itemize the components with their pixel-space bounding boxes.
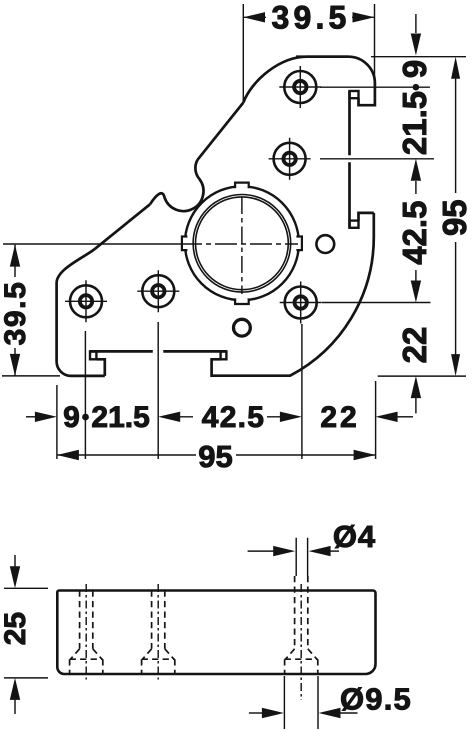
svg-text:39.5: 39.5	[0, 281, 32, 346]
dim 25 extension lines	[4, 588, 48, 678]
small circle bottom	[234, 319, 251, 336]
dim dia9.5 extension lines	[284, 676, 318, 729]
plate left edge	[55, 283, 58, 362]
big ring inner circle 1	[193, 195, 291, 293]
svg-text:42.5: 42.5	[202, 401, 266, 434]
dim 25 arrows outside	[14, 555, 16, 567]
ring vertical centerline	[241, 197, 243, 294]
plate right edge lower and bottom-right corner arc	[227, 213, 374, 376]
svg-text:21.5: 21.5	[91, 401, 149, 434]
dim top 39.5 extension line right	[374, 4, 376, 84]
ring tab south	[235, 298, 250, 306]
plate upper diagonal edge	[198, 103, 244, 160]
dim top 39.5 extension line left	[242, 4, 244, 102]
scallop notch	[150, 160, 203, 211]
svg-text:22: 22	[396, 327, 433, 364]
big ring inner circle 2	[196, 197, 289, 290]
dim dia4 arrows	[248, 550, 274, 552]
plate top-right corner arc	[348, 57, 375, 83]
svg-text:42.5: 42.5	[396, 201, 433, 265]
side view pin 3 centerline	[300, 584, 302, 700]
svg-text:25: 25	[0, 612, 32, 645]
bottom chain extension line HL2	[157, 322, 159, 459]
side view pin 2 (dashed)	[142, 591, 175, 675]
svg-text:95: 95	[198, 439, 232, 474]
big ring outer circle	[185, 186, 299, 300]
screw hole HL1 left	[65, 280, 107, 322]
svg-text:21.5: 21.5	[396, 91, 433, 155]
right slot hook bottom step	[359, 213, 374, 221]
screw hole H1 top	[279, 66, 321, 108]
right slot hook box top	[350, 91, 359, 98]
right slot recessed edge	[348, 91, 351, 228]
plate top-left corner arc	[243, 57, 348, 103]
plate lower diagonal edge	[95, 204, 150, 249]
right slot hook box bottom	[350, 221, 359, 228]
side view box outline	[57, 591, 375, 675]
dim dia9.5 arrows	[249, 712, 262, 714]
right chain extension line at H2	[320, 158, 434, 160]
dim 42.5 top arrow (points up)	[411, 159, 421, 181]
side view pin 2 centerline	[157, 584, 159, 680]
ring horizontal centerline	[3, 243, 180, 245]
svg-text:95: 95	[436, 199, 473, 236]
dim 42.5 bottom arrows	[158, 412, 302, 422]
screw hole HL2 middle	[137, 270, 179, 312]
dim 9 arrow above (points down to top line)	[415, 14, 417, 33]
screw hole H2	[269, 138, 311, 180]
bottom chain extension line plate right	[375, 381, 377, 459]
right chain extension line at H1	[320, 86, 430, 88]
svg-text:Ø4: Ø4	[333, 519, 376, 554]
side view pin 3 (dashed)	[285, 576, 318, 674]
svg-text:9: 9	[63, 401, 80, 434]
dim top 39.5 line and arrows	[243, 16, 374, 18]
side view pin 1 (dashed)	[70, 591, 103, 675]
side view pin 1 centerline	[85, 584, 87, 680]
ring tab east	[296, 236, 303, 251]
ring tab west	[181, 236, 188, 251]
screw hole H3 right-bottom	[280, 282, 322, 324]
small circle right	[316, 235, 334, 253]
svg-text:22: 22	[320, 401, 359, 434]
bottom slot recessed edge	[90, 350, 226, 353]
plate bottom edge left part	[71, 375, 105, 378]
chain dot at H1 level	[413, 84, 420, 91]
dim bottom 95 line and arrows	[57, 454, 376, 456]
svg-text:39.5: 39.5	[271, 0, 350, 36]
ring tab north	[235, 181, 250, 189]
dim dia4 extension lines	[296, 538, 307, 576]
dim left 39.5 extension bottom	[2, 375, 60, 377]
plate right edge upper	[359, 83, 375, 105]
dim right 95 line and arrows	[455, 78, 457, 355]
svg-text:9: 9	[396, 60, 433, 78]
bottom chain dot at HL1	[82, 414, 89, 421]
plate left upper corner arc into diagonal	[57, 249, 95, 283]
bottom chain extension line H3	[301, 324, 303, 459]
right chain extension line at plate bottom	[378, 375, 466, 377]
bottom slot right hook step	[212, 359, 227, 375]
dim 42.5 bottom arrow (points down)	[415, 270, 417, 281]
dim 9 bottom outside arrow (points right)	[26, 416, 36, 418]
bottom slot hook box right	[221, 351, 227, 359]
right chain extension line at plate top	[371, 56, 466, 58]
plate bottom-left corner arc	[57, 362, 71, 376]
right chain extension line at H3	[322, 302, 431, 304]
plate outline top edge	[296, 55, 348, 58]
bottom chain extension line HL1	[84, 331, 86, 459]
bottom slot hook box left	[90, 351, 96, 359]
bottom slot left hook step	[96, 359, 104, 376]
bottom chain extension line plate left	[56, 385, 58, 459]
dim 22 bottom outside arrow (points up)	[411, 376, 421, 398]
dim left 39.5 line and arrows	[14, 245, 16, 376]
svg-text:Ø9.5: Ø9.5	[340, 682, 412, 717]
dim 22 bottom outside arrow (points left)	[376, 412, 398, 422]
